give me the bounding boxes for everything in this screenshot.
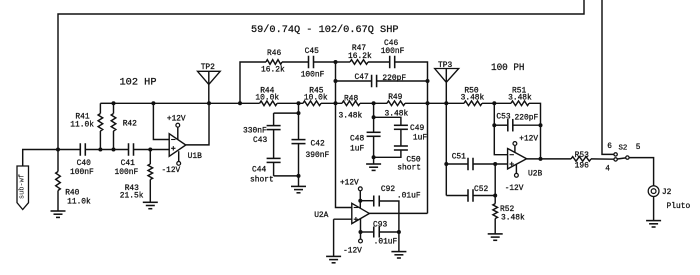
svg-text:J2: J2 <box>662 188 672 197</box>
svg-text:U2B: U2B <box>528 169 542 178</box>
wire C47 right <box>377 80 428 82</box>
svg-text:R48: R48 <box>344 94 358 103</box>
capacitor C43 <box>243 113 281 145</box>
wire rail R42 to U1B feedback <box>114 102 154 104</box>
svg-text:6: 6 <box>607 143 612 151</box>
node C53 left <box>492 123 496 127</box>
svg-text:C53: C53 <box>496 112 510 121</box>
wire node B vertical to U2A inverting input <box>336 81 352 208</box>
wire input node to C40 <box>58 149 80 151</box>
svg-text:+12V: +12V <box>167 115 186 123</box>
switch S2 arm <box>617 158 626 159</box>
wire R51 to feedback corner <box>529 103 541 125</box>
wire R45 to node B <box>321 102 342 104</box>
power +12V U2B <box>513 136 538 153</box>
node U2B + input <box>493 162 497 166</box>
svg-text:C52: C52 <box>474 185 488 194</box>
switch S2 contact pin 4 <box>614 158 617 161</box>
wire R46 to C45 <box>282 61 309 63</box>
wire C44 bottom to ground node <box>274 175 299 177</box>
wire C51 right <box>473 163 508 165</box>
wire U2B inverting branch <box>494 103 507 154</box>
node TP3 <box>444 101 448 105</box>
svg-text:C42: C42 <box>311 139 325 148</box>
capacitor C41 <box>115 143 139 177</box>
svg-text:-12V: -12V <box>343 248 362 256</box>
wire C51 left <box>446 163 468 165</box>
pin label 5 <box>636 144 641 152</box>
pin label 4 <box>605 166 610 174</box>
power -12V U2A <box>343 219 362 256</box>
svg-text:C47: C47 <box>355 73 369 82</box>
svg-text:R40: R40 <box>65 189 79 198</box>
svg-text:3.48k: 3.48k <box>339 112 363 121</box>
svg-text:10.0k: 10.0k <box>304 94 328 103</box>
node T1 <box>334 60 338 64</box>
op-amp U2B <box>508 149 543 179</box>
svg-text:16.2k: 16.2k <box>261 66 285 75</box>
node input junction <box>56 148 60 152</box>
resistor R50 <box>461 86 485 105</box>
node C47 feedback <box>426 79 430 83</box>
wire U2A non-inverting input <box>334 218 352 220</box>
svg-text:C40: C40 <box>77 159 91 168</box>
power +12V U2A <box>340 180 362 209</box>
svg-text:C49: C49 <box>410 124 424 133</box>
node C53 right <box>539 123 543 127</box>
node C92 tap <box>358 199 362 203</box>
resistor R43 <box>120 150 153 203</box>
wire C49 to C50 <box>400 129 402 146</box>
svg-text:+12V: +12V <box>519 136 538 144</box>
label 100 PH <box>491 62 525 74</box>
svg-text:102 HP: 102 HP <box>120 77 157 89</box>
wire U2A output <box>369 212 427 214</box>
node C51 left <box>444 162 448 166</box>
svg-text:100 PH: 100 PH <box>491 62 525 74</box>
svg-text:short: short <box>250 175 274 184</box>
wire C53 right <box>513 124 541 126</box>
resistor R45 <box>303 86 328 105</box>
switch S2 contact pin 6 <box>614 153 617 156</box>
wire C49 top <box>374 117 401 125</box>
wire switch to J2 <box>629 158 654 186</box>
wire C41 to U1B + input <box>134 148 170 152</box>
title 59/0.74Q - 102/0.67Q SHP <box>251 24 399 36</box>
capacitor C42 <box>292 113 330 176</box>
svg-text:.01uF: .01uF <box>374 238 398 247</box>
connector sub-wf <box>17 166 29 210</box>
ground R40 <box>51 211 66 217</box>
svg-text:1uF: 1uF <box>350 145 364 154</box>
wire C47 left <box>336 80 372 82</box>
resistor R40 <box>56 150 91 212</box>
testpoint TP3 <box>435 61 459 82</box>
wire R46 branch up <box>240 62 266 103</box>
node U1B feedback <box>151 101 155 105</box>
resistor R53 <box>571 151 591 170</box>
capacitor C92 bypass <box>360 185 421 213</box>
resistor R49 <box>385 93 409 119</box>
capacitor C51 <box>452 153 473 171</box>
resistor R44 <box>255 86 279 105</box>
wire C52 left <box>446 195 468 197</box>
wire R50 to U2B node <box>482 102 511 104</box>
svg-text:C43: C43 <box>253 136 267 145</box>
wire T1 down to C47 row <box>334 62 338 83</box>
wire C50 bottom <box>374 150 401 157</box>
resistor R48 <box>339 94 363 120</box>
svg-text:R49: R49 <box>388 93 402 102</box>
wire R53 to switch <box>591 158 614 160</box>
capacitor C44 <box>250 158 281 184</box>
svg-text:-12V: -12V <box>505 185 524 193</box>
pin label 6 <box>607 143 612 151</box>
svg-text:U2A: U2A <box>314 211 328 220</box>
connector J2 <box>648 186 690 211</box>
wire C40 to C41 <box>85 148 128 152</box>
wire C46 to feedback vertical <box>395 62 428 81</box>
node U1B output / TP2 <box>207 101 211 105</box>
wire C48 stem <box>373 103 375 117</box>
capacitor C45 <box>301 47 325 79</box>
wire C43 top <box>274 112 299 114</box>
node C42 top <box>297 111 301 115</box>
ground U2A + input <box>326 219 341 263</box>
svg-text:.01uF: .01uF <box>397 192 421 201</box>
svg-text:sub-wf: sub-wf <box>19 174 27 199</box>
node R42 top <box>112 101 116 105</box>
svg-text:330nF: 330nF <box>243 126 267 135</box>
svg-text:C92: C92 <box>381 185 395 194</box>
wire R47 to C46 <box>368 61 390 63</box>
svg-text:U1B: U1B <box>188 152 202 161</box>
wire rail to R44 <box>240 102 260 104</box>
svg-text:220pF: 220pF <box>382 74 406 83</box>
svg-text:3.48k: 3.48k <box>508 94 532 103</box>
power +12V U1B <box>167 115 186 140</box>
wire U1B output <box>186 103 209 145</box>
svg-text:390nF: 390nF <box>306 151 330 160</box>
svg-text:100nF: 100nF <box>70 168 94 177</box>
capacitor C46 <box>381 39 405 68</box>
svg-text:100nF: 100nF <box>381 47 405 56</box>
capacitor C48 <box>350 117 381 157</box>
wire C45 to node T1 <box>314 61 336 63</box>
capacitor C93 bypass <box>361 220 399 246</box>
capacitor C49 <box>394 124 427 142</box>
switch S2 contact pin 5 <box>626 156 629 159</box>
wire C52 right <box>473 195 495 197</box>
node U2B inverting branch <box>492 101 496 105</box>
ground R52 <box>488 234 503 240</box>
svg-text:59/0.74Q - 102/0.67Q SHP: 59/0.74Q - 102/0.67Q SHP <box>251 24 399 36</box>
svg-text:3.48k: 3.48k <box>501 213 525 222</box>
resistor R51 <box>508 86 532 105</box>
label 102 HP <box>120 77 157 89</box>
svg-text:C41: C41 <box>121 159 135 168</box>
node C93 ground junction <box>397 230 401 234</box>
svg-text:21.5k: 21.5k <box>120 192 144 201</box>
svg-text:C48: C48 <box>350 134 364 143</box>
wire J2 to ground <box>653 197 655 221</box>
capacitor C52 <box>468 185 488 202</box>
svg-text:C93: C93 <box>373 220 387 229</box>
svg-text:+12V: +12V <box>340 180 359 188</box>
wire feedback vertical to U2A output <box>427 81 429 213</box>
ground J2 <box>646 221 661 227</box>
svg-text:TP3: TP3 <box>438 61 452 70</box>
svg-text:220pF: 220pF <box>515 113 539 122</box>
capacitor C53 <box>496 112 538 131</box>
svg-text:100nF: 100nF <box>301 70 325 79</box>
capacitor C40 <box>70 143 94 177</box>
wire C53 left <box>494 124 508 126</box>
svg-text:16.2k: 16.2k <box>348 52 372 61</box>
wire C43 to C44 <box>273 130 275 159</box>
ground R43 <box>143 202 158 208</box>
wire U1B inverting input <box>153 103 169 139</box>
node C48 top <box>372 115 376 119</box>
testpoint TP2 <box>198 63 221 85</box>
svg-text:3.48k: 3.48k <box>461 94 485 103</box>
svg-text:-12V: -12V <box>162 167 181 175</box>
node U2B output feedback <box>539 157 543 161</box>
svg-text:10.0k: 10.0k <box>255 94 279 103</box>
wire C53 vertical <box>540 125 542 159</box>
svg-text:C44: C44 <box>252 166 266 175</box>
node C42 bottom <box>297 174 301 178</box>
node C42 branch <box>297 101 301 105</box>
wire U2B output <box>527 158 571 160</box>
wire T1 to R47 <box>336 61 351 63</box>
power -12V U1B <box>162 151 181 175</box>
ground C48 network <box>366 157 381 170</box>
capacitor C47 <box>355 73 407 87</box>
svg-text:C51: C51 <box>452 153 466 162</box>
resistor R41 <box>70 103 102 149</box>
svg-text:S2: S2 <box>619 145 628 153</box>
svg-text:1uF: 1uF <box>413 133 427 142</box>
node C48 branch <box>372 101 376 105</box>
node B summing <box>334 101 338 105</box>
svg-text:4: 4 <box>605 166 610 174</box>
node C52 right <box>493 194 497 198</box>
switch label S2 <box>619 145 628 153</box>
svg-text:100nF: 100nF <box>115 168 139 177</box>
svg-text:R53: R53 <box>575 151 589 160</box>
op-amp U2A <box>314 203 369 223</box>
ground C92 C93 <box>391 213 406 258</box>
svg-text:11.0k: 11.0k <box>70 121 94 130</box>
svg-text:short: short <box>397 163 421 172</box>
svg-text:11.0k: 11.0k <box>67 197 91 206</box>
ground C42 network <box>291 176 306 193</box>
resistor R42 <box>111 103 137 149</box>
node feedback vertical <box>426 101 430 105</box>
op-amp U1B <box>169 134 202 161</box>
wire off-page vertical to switch S2 pin 6 <box>602 0 614 154</box>
wire R48 to C48 node <box>360 102 387 104</box>
power -12V U2B <box>505 164 524 193</box>
resistor R52 <box>493 164 525 234</box>
svg-text:R42: R42 <box>123 120 137 129</box>
wire rail left segment <box>100 102 113 104</box>
node C93 tap <box>359 230 363 234</box>
wire rail U1B feedback to output node <box>153 102 209 104</box>
wire top border from input node up and across to top edge <box>58 0 584 150</box>
wire TP3 stem down to C51/C52 <box>445 69 447 196</box>
svg-text:196: 196 <box>575 162 589 171</box>
wire rail TP3 to R50 <box>446 102 464 104</box>
wire R49 to feedback node <box>405 102 446 104</box>
svg-text:R46: R46 <box>267 49 281 58</box>
wire R44 to C42 node <box>277 102 303 104</box>
svg-text:Pluto: Pluto <box>667 202 691 211</box>
wire rail output node to R46 branch <box>209 102 240 104</box>
wire sub-wf to input node <box>23 150 58 167</box>
svg-text:TP2: TP2 <box>201 63 215 72</box>
node R46 branch <box>238 101 242 105</box>
capacitor C50 <box>394 146 421 172</box>
wire TP2 stem <box>208 71 210 103</box>
wire C42 branch stem <box>298 103 300 113</box>
svg-text:5: 5 <box>636 144 641 152</box>
svg-text:C45: C45 <box>305 47 319 56</box>
node C48 bottom <box>372 155 376 159</box>
resistor R46 <box>261 49 285 74</box>
resistor R47 <box>348 44 372 65</box>
